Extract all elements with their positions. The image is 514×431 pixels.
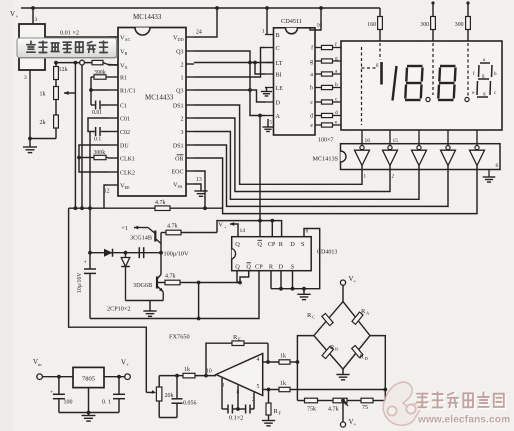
pin 2 MC14433 right y118 — [186, 117, 194, 119]
wire 20k top node — [159, 375, 177, 377]
pin 3 MC14433 right y131.5 — [186, 131, 194, 133]
wire S wrap to bottom — [304, 229, 320, 289]
resistor Rb — [322, 346, 333, 358]
resistor 300 a — [431, 1, 434, 4]
pin BI CD4511 — [265, 73, 274, 75]
diode 2CP10 first — [104, 249, 113, 257]
wire rail to pin16 — [310, 8, 321, 30]
sensor box — [19, 24, 45, 70]
potentiometer 4.7k bottom — [333, 398, 347, 403]
IC U1 MC14433 body — [118, 28, 186, 197]
pin V MC14433 right y37 — [186, 36, 194, 38]
wire Q1 to C — [194, 48, 265, 78]
resistor segment f — [315, 47, 322, 49]
inverter buffer 4 MC1413S — [446, 146, 450, 150]
wire rail to B pin — [266, 8, 268, 35]
pin 2 MC14433 right y64 — [186, 63, 194, 65]
inverter buffer 3 MC1413S — [417, 146, 421, 150]
diode 2CP10 second — [125, 253, 127, 258]
resistor 75 bottom — [361, 398, 373, 403]
wire EOC to VEE rail — [194, 171, 205, 208]
pin Q3 MC14433 right y90 — [186, 89, 194, 91]
node V+ top rail — [21, 7, 380, 9]
wire cap branch down — [89, 208, 91, 253]
wire 7805 to V+ terminal — [104, 376, 125, 378]
wire collector node — [160, 233, 162, 275]
wire Q3 to A — [194, 51, 265, 116]
watermark text elecfans — [418, 394, 429, 397]
wire 7805 ground rail — [59, 412, 119, 414]
wire sensor to ground — [29, 70, 31, 139]
resistor 4.7k lower — [157, 282, 165, 284]
wire digit strobe bus 5 — [194, 158, 477, 214]
wire V+ to sensor box — [32, 8, 34, 24]
wire bottom Qbar tie — [240, 271, 249, 283]
pin A CD4511 — [265, 115, 274, 117]
pin VX MC14433 left — [108, 64, 118, 66]
wire Q0 to D — [194, 90, 265, 102]
pin CLK1 MC14433 left — [108, 157, 118, 159]
pin C01 MC14433 left — [108, 117, 118, 119]
resistor 12k — [55, 63, 57, 68]
potentiometer 1k — [54, 87, 59, 100]
wire digit strobe bus 1 — [194, 105, 362, 184]
pin DS1 MC14433 right y145 — [186, 144, 194, 146]
wire op-amp out4 with 1k — [263, 361, 279, 363]
pin B CD4511 — [265, 34, 274, 36]
wire left rail down to 20k branch — [69, 208, 147, 392]
resistor Rd — [352, 346, 363, 358]
terminal V+ bridge bottom — [342, 401, 344, 422]
wire display to buffer 4 — [447, 130, 449, 146]
dashed strobe line 1 — [361, 47, 363, 125]
pin DU MC14433 left — [108, 144, 118, 146]
resistor 160 — [379, 8, 381, 17]
wiper arrow of 1k pot — [64, 92, 75, 94]
pin D CD4511 — [265, 101, 274, 103]
inverter buffer 1 MC1413S — [360, 146, 364, 150]
wire display to buffer 2 — [389, 130, 391, 146]
transistor Q1 3CG14B — [154, 231, 156, 242]
wire 20k bottom loop — [159, 417, 177, 419]
resistor 300k clock — [79, 145, 108, 172]
wiper arrow 20k — [146, 391, 152, 393]
wire digit strobe bus 2 — [194, 118, 390, 192]
resistor RF to ground — [268, 390, 270, 404]
ground at LE — [265, 87, 267, 89]
ground bridge bottom — [342, 369, 344, 374]
pin C1 MC14433 left — [108, 104, 118, 106]
watermark logo elecfans — [383, 382, 422, 425]
resistor 2k — [54, 115, 59, 128]
resistor segment c — [315, 101, 322, 103]
pin R1/C1 MC14433 left — [108, 89, 118, 91]
wire lower long rail — [90, 271, 259, 319]
bottom rail of transistor block — [126, 300, 164, 302]
IC U3 MC1413S body — [341, 144, 501, 170]
wire display to buffer 1 — [361, 130, 363, 146]
digit small with segment labels — [480, 62, 490, 64]
wire VEE to bottom rail — [104, 185, 108, 208]
ground of 7805 — [82, 415, 96, 417]
resistor 1k input — [177, 375, 183, 377]
wire display to buffer 3 — [418, 130, 420, 146]
resistor segment b — [315, 87, 322, 89]
IC 7805 body — [73, 367, 104, 387]
wire junction circle drop — [81, 65, 83, 208]
resistor 75k bottom — [297, 400, 304, 402]
inverter buffer 2 MC1413S — [388, 146, 392, 150]
resistor Rc — [322, 313, 333, 325]
resistor segment g — [315, 60, 322, 62]
potentiometer 20k — [158, 376, 160, 387]
ground under sensor — [29, 139, 31, 148]
pin VR MC14433 left — [108, 50, 118, 52]
wire BI tie — [255, 63, 265, 75]
wire VDD pin24 to rail — [194, 8, 217, 37]
node VEE bottom rail with 4.7k — [69, 207, 155, 209]
op-amp A1 triangle — [216, 354, 263, 396]
wire sensor output to VAC pin — [45, 36, 118, 38]
bridge diamond — [314, 302, 370, 370]
dashed minus segment — [362, 67, 379, 69]
resistor segment d — [315, 115, 322, 117]
IC U4 CD4013 body — [232, 237, 312, 271]
resistor Ra — [352, 312, 363, 324]
wire hang to lower rail — [198, 283, 200, 319]
resistor RE feedback — [206, 343, 232, 375]
capacitor 100 input — [58, 377, 60, 395]
scan noise overlay — [0, 0, 1, 1]
wire op-amp out5 with 1k — [263, 389, 279, 391]
digit 1 — [393, 66, 397, 101]
pin 1 MC14433 right y77 — [186, 76, 194, 78]
pin C02 MC14433 left — [108, 131, 118, 133]
wire Qbar feed vertical — [259, 116, 261, 237]
pin EOC MC14433 right y171 — [186, 170, 194, 172]
capacitors 0.1x2 under op-amp — [221, 378, 223, 409]
pin LT CD4511 — [265, 62, 274, 64]
transistor Q2 3DG6B — [156, 277, 158, 289]
wire bridge right leg — [370, 336, 385, 401]
wire CP feed stub — [271, 221, 273, 237]
wire digit strobe bus 3 — [194, 132, 419, 200]
pin V MC14433 right y184 — [186, 183, 194, 185]
wire lower 4.7k to bottom Q — [237, 271, 240, 283]
ground below A — [267, 119, 269, 127]
inverter buffer 5 MC1413S — [475, 146, 479, 150]
ground of transistor block — [149, 301, 151, 312]
overflow digit 1 — [379, 43, 381, 60]
resistor 300 b — [466, 1, 469, 4]
capacitor C02 0.1 — [88, 118, 108, 132]
capacitor 0.1 output — [118, 377, 120, 395]
pin C CD4511 — [265, 47, 274, 49]
wire 2k bottom to ground node — [30, 138, 56, 140]
pin CLK2 MC14433 left — [108, 171, 118, 173]
ground at VSS — [194, 184, 201, 191]
pin R1 MC14433 left — [108, 76, 118, 78]
dashed strobe line 3 — [467, 43, 469, 96]
display module box — [341, 41, 502, 130]
wire display to buffer 5 — [476, 130, 478, 146]
dashed strobe line 2 — [432, 43, 434, 95]
capacitor 100uF/10V — [138, 247, 140, 258]
digit 8 first — [407, 65, 423, 67]
resistor on Vx line — [92, 60, 103, 64]
pin DS1 MC14433 right y105 — [186, 104, 194, 106]
wire 4.7k upper to flip-flop feed — [217, 221, 282, 237]
pin LE CD4511 — [265, 87, 274, 89]
wire digit strobe bus 4 — [194, 145, 448, 206]
pin 14 V+ arrow — [230, 224, 238, 237]
terminal V+ bridge top — [340, 280, 345, 285]
resistor segment e — [315, 124, 322, 126]
decimal point 1 — [426, 97, 430, 101]
node Vx line — [56, 62, 92, 64]
wire wiper riser — [74, 63, 76, 209]
pin OR MC14433 right y158 — [186, 157, 194, 159]
capacitor 0.056 — [176, 376, 178, 399]
resistor 390k — [91, 76, 94, 78]
wiper arrow 4.7k pot — [344, 401, 348, 406]
pin Q3 MC14433 right y51 — [186, 50, 194, 52]
wire Vx drop long — [89, 132, 91, 209]
wire Q2 to LT — [194, 62, 274, 64]
wire Vin to 7805 — [42, 376, 73, 378]
IC U2 CD4511 body — [274, 28, 316, 135]
resistor segment a — [315, 73, 322, 75]
pin VAC MC14433 left — [108, 36, 118, 38]
decimal point 2 — [465, 97, 469, 101]
node 100uF line — [90, 252, 161, 254]
capacitor C1 0.01 — [91, 104, 95, 106]
wire bridge left leg — [297, 336, 314, 401]
junction circle on Vx line — [80, 60, 85, 65]
wire R1 C1 loop — [90, 77, 92, 105]
resistor 4.7k upper — [161, 232, 166, 234]
capacitor 10uF/16V electrolytic — [89, 253, 91, 269]
pin VEE MC14433 left — [108, 184, 118, 186]
digit 8 second — [440, 65, 456, 67]
wire bottom R D S row with ground — [270, 271, 272, 289]
